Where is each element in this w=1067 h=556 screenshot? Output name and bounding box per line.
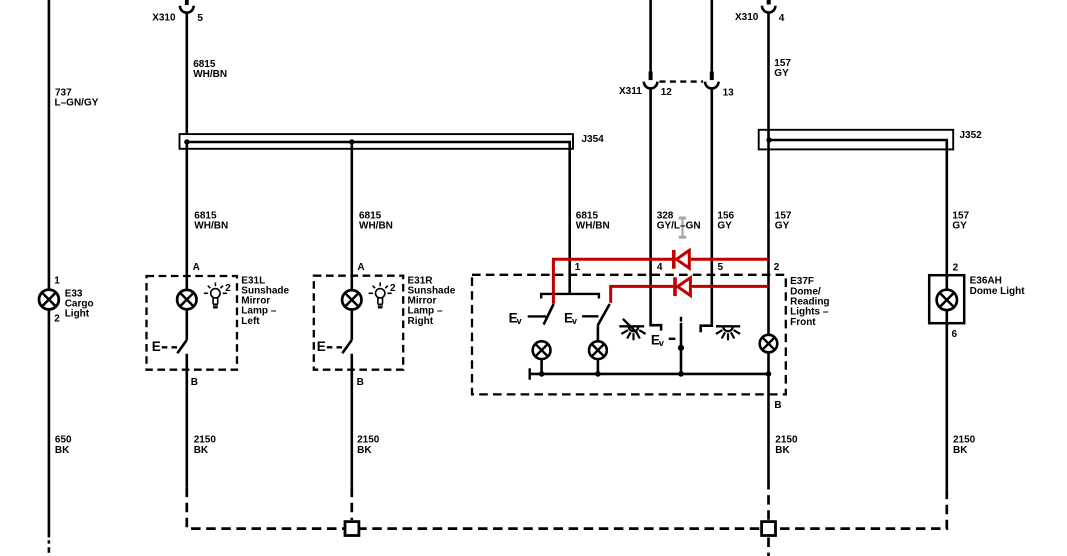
svg-text:BK: BK (357, 445, 372, 456)
svg-text:J352: J352 (960, 130, 983, 141)
svg-text:X310: X310 (735, 12, 759, 23)
splice pack J352 box (759, 130, 954, 150)
E37F illumination icon left line (619, 325, 644, 327)
lamp E31R cross (345, 293, 359, 307)
junction dot J354 middle (349, 139, 354, 144)
bulb icon E31L (204, 283, 227, 308)
wire 6815 WH/BN J354 to E31R (350, 142, 353, 290)
wire dashed stub bottom left (48, 540, 51, 553)
svg-text:v: v (517, 316, 522, 326)
svg-text:J354: J354 (582, 134, 605, 145)
svg-text:Dome Light: Dome Light (970, 286, 1026, 297)
wire 2150 BK below E36AH (945, 323, 948, 489)
wire 328 GY/L-GN X311-12 to E37F pin 4 with contact foot (651, 89, 662, 331)
junction dot bus lamp1 (539, 371, 545, 377)
svg-text:2: 2 (225, 283, 231, 294)
junction dot J352 (766, 137, 771, 142)
diode D2 triangle (678, 278, 691, 296)
dashed link between X311 cups (660, 80, 704, 82)
switch actuator dashes E31L (162, 346, 180, 348)
svg-text:E: E (317, 339, 326, 354)
wire 6815 WH/BN from X310-5 to J354 (186, 13, 189, 134)
ground splice square S1 (345, 522, 359, 536)
lamp E31R circle (342, 290, 361, 309)
svg-text:GY: GY (775, 221, 790, 232)
red circuit highlight (553, 250, 768, 304)
dashed stub wire E37F to ground (767, 480, 770, 520)
svg-text:4: 4 (779, 13, 785, 24)
svg-text:BK: BK (775, 445, 790, 456)
lamp E31L circle (177, 290, 196, 309)
svg-text:GY: GY (952, 221, 967, 232)
svg-text:BK: BK (55, 445, 70, 456)
E37F bottom bus left cap (529, 368, 531, 379)
svg-text:X311: X311 (619, 86, 642, 97)
svg-text:E: E (152, 339, 161, 354)
wire 156 GY X311-13 to E37F pin 5 with contact foot (701, 89, 712, 333)
E37F illumination icon right arc (723, 327, 733, 332)
E37F bottom bus (530, 373, 769, 376)
svg-text:6: 6 (952, 329, 958, 340)
bus wire inside J354 to E37F pin 1 (187, 142, 570, 294)
svg-text:A: A (357, 262, 364, 273)
splice pack J354 box (180, 134, 574, 149)
E37F actuator dash middle (669, 338, 676, 340)
E37F illumination icon left arc (629, 327, 639, 332)
E37F wire blade2 to lamp 2 (597, 325, 600, 341)
E37F actuator line 1 (528, 315, 546, 317)
ground dashed run (left corner, horizontal, right corner) (187, 488, 947, 529)
wire 157 GY X310-4 through J352 to E37F pin 2 lamp (767, 13, 770, 335)
E37F switch blade 1 (544, 304, 554, 325)
connector X311 pin 13 male pin (710, 72, 714, 81)
E37F actuator line 2 (582, 315, 598, 317)
E37F lamp 1 circle (533, 341, 551, 359)
svg-text:B: B (191, 377, 198, 388)
wire below E33 cargo light (48, 310, 51, 538)
connector X311 wire 12 upper (649, 0, 652, 77)
E37F lamp 3 circle (760, 335, 778, 353)
svg-text:WH/BN: WH/BN (359, 221, 393, 232)
E37F pivot dash top (680, 317, 682, 322)
svg-text:1: 1 (575, 262, 581, 273)
svg-text:GY/L–GN: GY/L–GN (657, 221, 701, 232)
E37F illumination icon right line (716, 325, 740, 327)
red wire 2 (pin2 to switch 2) (611, 286, 674, 303)
svg-text:B: B (774, 400, 781, 411)
svg-text:5: 5 (197, 13, 203, 24)
lamp E36AH cross (940, 293, 954, 307)
lamp E33 cross (42, 293, 56, 307)
E37F lamp 2 cross (592, 344, 604, 356)
svg-text:L–GN/GY: L–GN/GY (55, 97, 99, 108)
svg-text:2: 2 (774, 262, 780, 273)
wire lamp E31L to switch (186, 309, 189, 340)
connector X310 pin 5 female cup (180, 6, 194, 13)
wire E31R switch to pin B (350, 354, 353, 488)
E37F lamp 1 cross (535, 344, 547, 356)
svg-text:v: v (572, 316, 577, 326)
junction dot bus lamp3 (766, 371, 772, 377)
wire 6815 WH/BN J354 to E31L (186, 142, 189, 290)
E37F illumination icon left diagonal (623, 319, 638, 333)
dashed stub wire E31R to ground (350, 488, 353, 520)
E37F lamp 1 stem (540, 359, 543, 374)
bulb icon E31R (369, 283, 392, 308)
connector X311 wire 13 upper (710, 0, 713, 77)
component box E31L dashed (147, 276, 238, 370)
diode D1 cathode bar (672, 250, 676, 269)
switch blade E31R (342, 340, 352, 353)
text cursor (I-beam) (679, 218, 686, 237)
svg-text:5: 5 (718, 262, 724, 273)
svg-text:WH/BN: WH/BN (193, 69, 227, 80)
junction dot bus pivot (678, 371, 684, 377)
svg-text:12: 12 (661, 87, 673, 98)
diode D1 triangle (676, 250, 689, 268)
E37F lamp 3 stem / wire to pin B (767, 352, 770, 480)
svg-text:WH/BN: WH/BN (194, 221, 228, 232)
red wire 1 (pin2 to switch 1) (553, 259, 672, 304)
svg-text:Left: Left (241, 316, 260, 327)
svg-text:2: 2 (953, 262, 959, 273)
svg-text:2: 2 (390, 283, 396, 294)
dashed stub below right ground square (767, 538, 770, 556)
wire lamp E31R to switch (350, 310, 353, 340)
wire E31L switch to pin B (186, 354, 189, 488)
svg-text:BK: BK (953, 445, 968, 456)
component box E36AH (929, 275, 964, 323)
connector X310 pin 4 female cup (762, 6, 775, 13)
E37F illumination icon right rays (716, 330, 740, 340)
svg-text:B: B (357, 377, 364, 388)
bus wire inside J352 to E36AH (769, 140, 947, 275)
connector X311 pin 12 female cup (644, 82, 658, 89)
E37F switch blade 2 (598, 304, 610, 325)
svg-text:v: v (659, 338, 664, 348)
svg-text:2: 2 (54, 314, 60, 325)
E37F lamp 2 stem (597, 359, 600, 374)
svg-text:13: 13 (723, 88, 735, 99)
red wire 2 right of diode (692, 285, 769, 288)
svg-text:Right: Right (408, 316, 434, 327)
component box E31R dashed (314, 276, 403, 370)
svg-text:WH/BN: WH/BN (576, 221, 610, 232)
switch actuator dashes E31R (327, 346, 345, 348)
red wire 1 right of diode (691, 258, 769, 261)
connector X310 pin 5 male pin (185, 0, 189, 5)
lamp E31L cross (180, 293, 194, 307)
switch blade E31L (177, 340, 187, 353)
component box E37F dashed (472, 275, 786, 395)
E37F lamp 3 cross (762, 338, 774, 350)
connector X310 pin 4 male pin (767, 0, 771, 5)
diode D2 cathode bar (673, 277, 677, 296)
E37F illumination icon left rays (621, 330, 645, 340)
E37F pivot dot (678, 345, 684, 351)
connector X311 pin 12 male pin (649, 72, 653, 81)
svg-text:GY: GY (774, 68, 789, 79)
svg-text:4: 4 (657, 262, 663, 273)
junction dot J354 left (184, 139, 189, 144)
E37F pivot line (680, 323, 683, 374)
svg-text:Front: Front (790, 317, 816, 328)
connector X311 pin 13 female cup (705, 82, 719, 89)
svg-text:1: 1 (54, 276, 60, 287)
svg-text:BK: BK (194, 445, 209, 456)
wire 737 L-GN/GY cargo light feed (left vertical) (48, 0, 51, 289)
svg-text:A: A (193, 262, 200, 273)
E37F lamp 2 circle (589, 341, 607, 359)
svg-text:GY: GY (717, 221, 732, 232)
svg-text:Light: Light (65, 309, 90, 320)
lamp E33 circle (39, 290, 59, 310)
E37F common bar (541, 294, 599, 299)
ground splice square S2 (762, 522, 776, 536)
svg-text:X310: X310 (152, 13, 176, 24)
wire E36AH lamp inside box (945, 275, 948, 323)
lamp E36AH circle (937, 290, 957, 310)
junction dot bus lamp2 (595, 371, 601, 377)
